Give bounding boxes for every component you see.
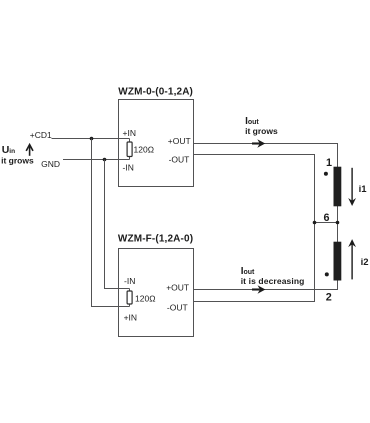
svg-text:WZM-0-(0-1,2A): WZM-0-(0-1,2A): [118, 86, 193, 97]
wire +CD1 branch down to U2 +IN: [92, 139, 130, 307]
wire +CD1 to U1 +IN: [52, 138, 130, 140]
wire GND to U1 -IN: [63, 159, 130, 161]
svg-text:i1: i1: [359, 184, 368, 195]
svg-text:-OUT: -OUT: [167, 303, 188, 313]
arrow i1 (down): [351, 168, 353, 202]
svg-text:it is decreasing: it is decreasing: [241, 276, 305, 286]
arrow up (Uin grows): [29, 146, 31, 156]
svg-text:it grows: it grows: [245, 126, 278, 136]
arrow i2 (up): [351, 244, 353, 279]
svg-text:+OUT: +OUT: [168, 136, 191, 146]
svg-text:it grows: it grows: [1, 156, 34, 166]
resistor R2 leads: [129, 289, 131, 307]
svg-text:+IN: +IN: [124, 312, 137, 322]
resistor R1 body: [127, 142, 132, 157]
svg-text:-IN: -IN: [124, 276, 135, 286]
svg-text:GND: GND: [41, 159, 60, 169]
junction node 6 left: [313, 221, 317, 225]
junction node 6 right: [336, 221, 340, 225]
svg-text:120Ω: 120Ω: [134, 144, 155, 154]
flow arrow on U1 +OUT wire: [252, 142, 260, 144]
block U2 box outline: [119, 249, 194, 337]
svg-text:i2: i2: [361, 257, 369, 268]
svg-text:+OUT: +OUT: [166, 283, 189, 293]
wire node6 down through load i2 to U2 +OUT: [194, 223, 338, 290]
svg-text:WZM-F-(1,2A-0): WZM-F-(1,2A-0): [118, 234, 193, 245]
flow arrow on U2 +OUT wire: [252, 288, 260, 290]
svg-text:+CD1: +CD1: [30, 130, 52, 140]
polarity dot load i2: [325, 272, 329, 276]
wire U1 +OUT to load i1 (right vertical): [194, 144, 338, 223]
svg-text:+IN: +IN: [123, 128, 136, 138]
load i2 body: [334, 242, 342, 281]
svg-text:-IN: -IN: [123, 162, 134, 172]
wire U1 -OUT to inner vertical: [194, 155, 315, 302]
junction on GND wire: [103, 158, 107, 162]
wire GND branch down to U2 -IN: [105, 160, 130, 289]
resistor R2 body: [127, 291, 132, 304]
svg-text:1: 1: [326, 157, 332, 169]
load i1 body: [334, 167, 342, 207]
svg-text:120Ω: 120Ω: [135, 293, 156, 303]
junction on +CD1 wire: [90, 137, 94, 141]
wire node 6 link: [315, 222, 338, 224]
block U1 box outline: [119, 100, 194, 187]
resistor R1 leads: [129, 139, 131, 160]
svg-text:-OUT: -OUT: [169, 154, 190, 164]
polarity dot load i1: [324, 172, 328, 176]
svg-text:2: 2: [326, 292, 332, 304]
svg-text:6: 6: [323, 212, 329, 224]
